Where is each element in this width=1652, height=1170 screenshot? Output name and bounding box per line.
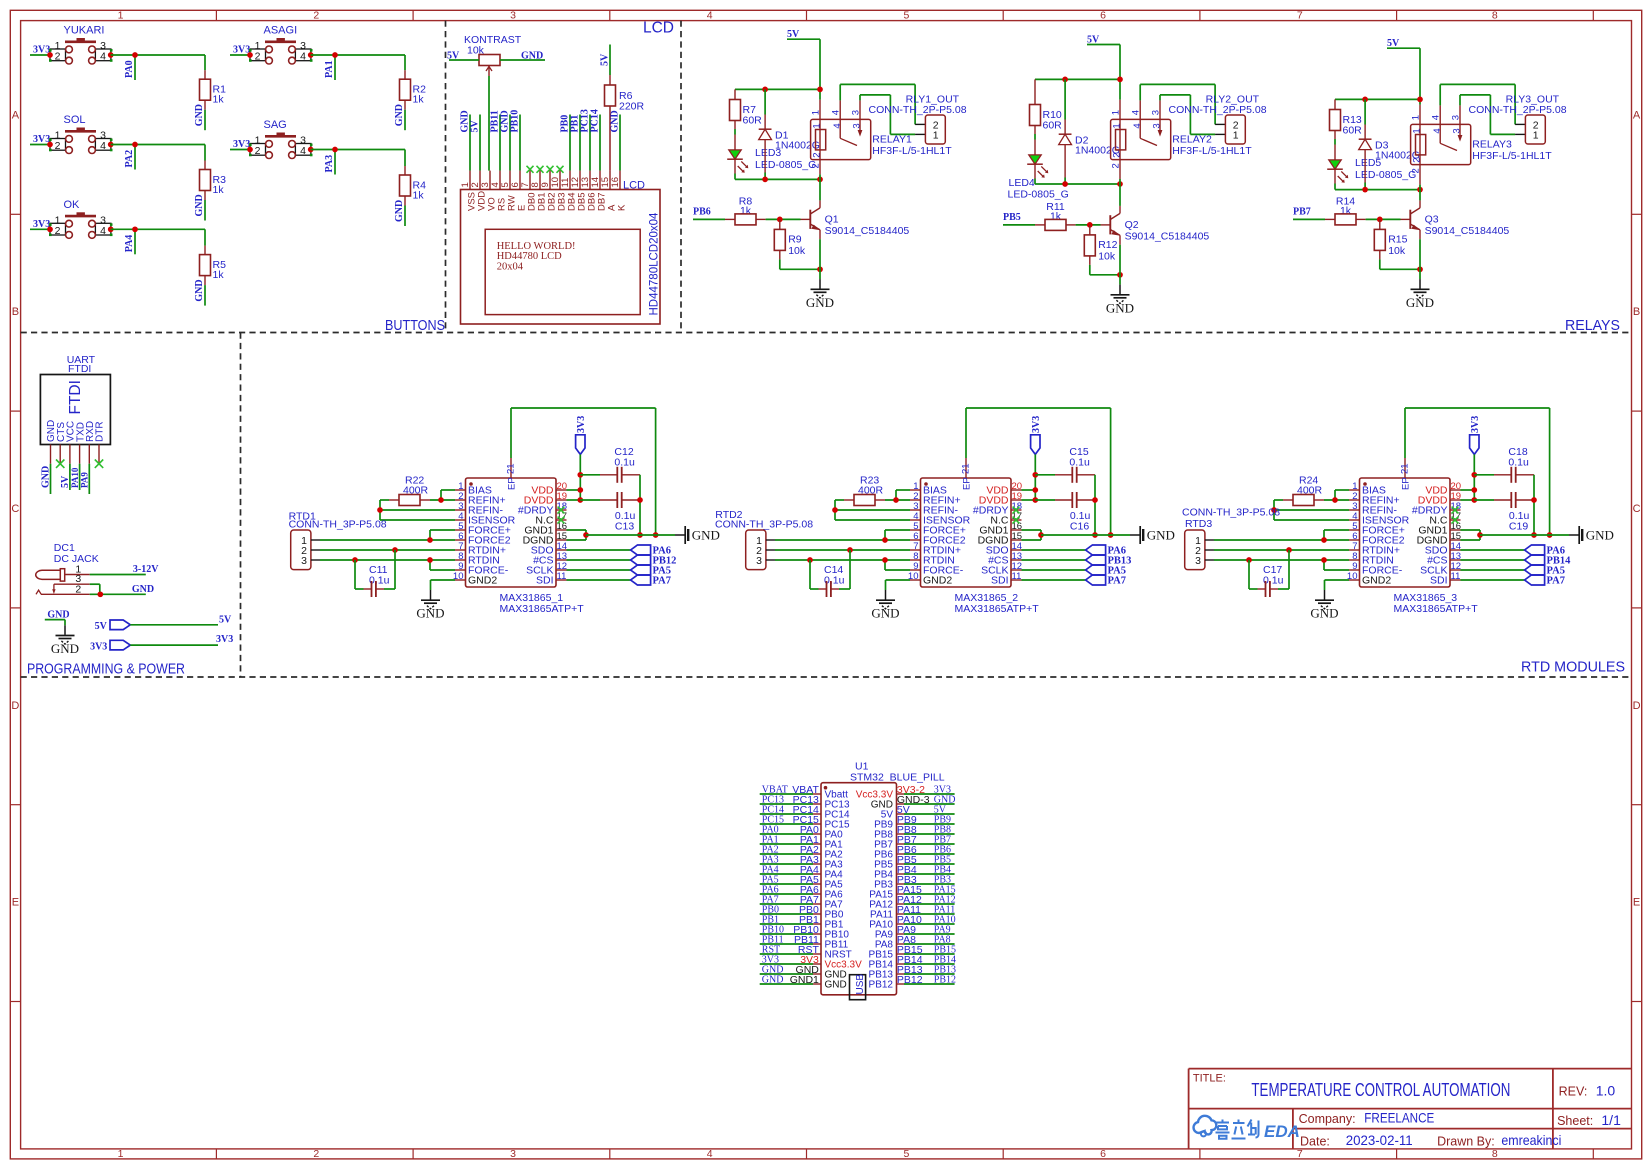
svg-text:0.1u: 0.1u	[614, 457, 635, 469]
svg-text:RELAY1: RELAY1	[872, 134, 912, 146]
transistor Q3 S9014	[1401, 200, 1510, 239]
title text	[1193, 1072, 1511, 1100]
wire GND1/DGND to ground (module 3)	[1461, 530, 1570, 540]
resistor R24 400R	[1283, 475, 1324, 506]
svg-text:GND2: GND2	[468, 575, 497, 587]
LED LED5 LED-0805_G	[1327, 145, 1416, 190]
svg-text:4: 4	[1432, 128, 1443, 133]
svg-text:4: 4	[100, 225, 106, 237]
svg-text:3V3: 3V3	[216, 634, 233, 645]
svg-text:GND1: GND1	[790, 974, 819, 986]
capacitor C11 0.1u	[355, 550, 395, 597]
wire FTDI RXD PA9	[88, 464, 90, 494]
svg-text:GND: GND	[132, 584, 154, 595]
ground (MAX31865_3 GND1)	[1569, 534, 1579, 536]
svg-text:FREELANCE: FREELANCE	[1364, 1109, 1434, 1125]
svg-text:HF3F-L/5-1HL1T: HF3F-L/5-1HL1T	[872, 145, 952, 157]
wire emitter (relay 1)	[819, 239, 821, 279]
wire LCD pin 1	[469, 115, 471, 171]
svg-text:RELAYS: RELAYS	[1565, 318, 1620, 334]
wire PA0 net	[111, 52, 205, 80]
wire/net RST (U1 left row 17)	[760, 944, 820, 956]
wire LCD pin 2	[479, 115, 481, 171]
LCD module HD44780LCD20x04	[460, 171, 660, 324]
JLCEDA logo	[1194, 1116, 1300, 1141]
wire FTDI TXD PA10	[79, 464, 81, 490]
svg-text:3V3: 3V3	[576, 416, 587, 433]
wire/net GND (U1 right row 2)	[897, 794, 956, 806]
svg-text:STM32_BLUE_PILL: STM32_BLUE_PILL	[850, 771, 945, 783]
wire PA3 net	[311, 147, 405, 175]
wire 3V3 to VDD/DVDD (module 1)	[567, 454, 584, 502]
wire GND2 (module 3)	[1325, 580, 1350, 590]
rev cell	[1559, 1083, 1616, 1099]
svg-text:0.1u: 0.1u	[1069, 457, 1090, 469]
wire PB5 to R11	[1003, 224, 1035, 226]
resistor R7 60R	[730, 89, 763, 134]
svg-text:R9: R9	[788, 233, 802, 245]
svg-text:E: E	[12, 897, 19, 909]
wire/net PC13 (U1 left row 2)	[760, 794, 819, 806]
wire RTD3 pin1 to FORCE+/FORCE2	[1214, 530, 1349, 543]
svg-text:GND2: GND2	[1362, 575, 1391, 587]
wire/net PB11 (U1 left row 16)	[760, 934, 819, 946]
wire relay pin4 to RLY2_OUT pin2	[1140, 84, 1215, 124]
MCU U1 STM32_BLUE_PILL	[813, 761, 945, 995]
svg-text:5V: 5V	[1087, 34, 1100, 45]
wire RTD1 pin1 to FORCE+/FORCE2	[320, 530, 455, 543]
svg-text:4: 4	[300, 51, 306, 63]
resistor R23 400R	[844, 475, 885, 506]
wire 5V trunk (relay 3)	[1335, 48, 1423, 104]
svg-text:MAX31865ATP+T: MAX31865ATP+T	[500, 603, 585, 615]
wire relay pin3 to RLY3_OUT pin1	[1460, 95, 1515, 134]
net flag PB13 (module 2)	[1022, 555, 1132, 567]
wire/net PB5 (U1 right row 8)	[897, 854, 955, 866]
svg-text:SOL: SOL	[64, 114, 86, 126]
svg-text:EDA: EDA	[1264, 1122, 1300, 1141]
svg-text:R15: R15	[1388, 233, 1407, 245]
wire/net 3V3 (U1 left row 18)	[760, 954, 819, 966]
svg-text:EP: EP	[1401, 477, 1412, 490]
power flag 3V3 (module 2)	[1031, 416, 1042, 455]
wire 5V trunk (relay 1)	[735, 39, 823, 99]
connector RTD2 CONN-TH_3P-P5.08	[715, 509, 813, 570]
wire relay pin3 to RLY1_OUT pin1	[860, 95, 915, 134]
svg-text:10k: 10k	[788, 245, 806, 257]
capacitor C18 0.1u	[1474, 446, 1534, 483]
svg-text:RTD3: RTD3	[1185, 518, 1212, 530]
svg-text:1k: 1k	[213, 184, 225, 196]
resistor R22 400R	[389, 475, 430, 506]
connector RLY3_OUT CONN-TH_2P-P5.08	[1469, 94, 1567, 145]
wire/net PB13 (U1 right row 19)	[897, 964, 956, 976]
svg-text:USB: USB	[855, 974, 866, 995]
svg-text:PB6: PB6	[693, 207, 711, 218]
ground (relay 2)	[1119, 285, 1121, 295]
wire GND2 (module 1)	[431, 580, 456, 590]
wire/net PB1 (U1 left row 14)	[760, 914, 819, 926]
transistor Q1 S9014	[801, 200, 910, 239]
svg-text:1: 1	[1411, 128, 1422, 133]
ground (MAX31865_1 GND2)	[430, 590, 432, 600]
wire/net PB15 (U1 right row 17)	[897, 944, 956, 956]
svg-text:2: 2	[1110, 163, 1121, 168]
capacitor C19 0.1u	[1474, 492, 1534, 533]
svg-text:4: 4	[707, 1148, 713, 1160]
wire KONTRAST to GND	[500, 59, 545, 61]
pushbutton SAG	[247, 119, 313, 159]
svg-text:S9014_C5184405: S9014_C5184405	[1425, 225, 1510, 237]
resistor R5 1k	[200, 246, 227, 286]
svg-text:A: A	[12, 109, 20, 121]
svg-text:2: 2	[810, 163, 821, 168]
LED LED4 LED-0805_G	[1008, 140, 1069, 201]
wire/net PA7 (U1 left row 12)	[760, 894, 819, 906]
capacitor C16 0.1u	[1035, 492, 1095, 533]
svg-text:EP: EP	[962, 477, 973, 490]
svg-text:3: 3	[756, 555, 762, 567]
wire LCD pin 12	[579, 115, 581, 171]
wire R15 to emitter	[1380, 259, 1423, 272]
wire PA1 net	[311, 52, 405, 80]
svg-text:4: 4	[1132, 123, 1143, 128]
wire REFIN-/ISENSOR to R22	[377, 500, 455, 520]
LED LED3 LED-0805_G	[727, 135, 816, 180]
svg-text:1: 1	[810, 110, 821, 115]
wire DC1 pin1 to 3-12V	[90, 574, 146, 576]
wire LCD pin 16 to GND	[619, 115, 621, 171]
svg-text:K: K	[616, 204, 627, 211]
resistor R1 1k	[200, 70, 227, 110]
relay RELAY1 HF3F-L/5-1HL1T	[810, 100, 952, 180]
diode D2 1N4002G	[1059, 79, 1120, 184]
wire/net PB0 (U1 left row 13)	[760, 904, 819, 916]
svg-text:PROGRAMMING & POWER: PROGRAMMING & POWER	[27, 662, 185, 678]
svg-text:CONN-TH_2P-P5.08: CONN-TH_2P-P5.08	[1469, 104, 1567, 116]
no-connect X (MAX31865_1 pin 17)	[558, 517, 565, 524]
svg-text:Drawn By:: Drawn By:	[1437, 1135, 1495, 1149]
wire EP to GND rail (module 3)	[1405, 408, 1552, 538]
power flag 3V3 (module 1)	[576, 416, 587, 455]
ground (relay 1)	[819, 279, 821, 289]
svg-text:PA9: PA9	[80, 472, 90, 488]
svg-text:GND: GND	[762, 974, 784, 985]
svg-text:21: 21	[961, 463, 972, 474]
net flag PB12 (module 1)	[567, 555, 677, 567]
svg-text:20x04: 20x04	[497, 261, 524, 272]
svg-text:PB5: PB5	[1003, 212, 1021, 223]
svg-text:PA0: PA0	[124, 60, 135, 78]
svg-text:RELAY3: RELAY3	[1472, 139, 1512, 151]
svg-text:0.1u: 0.1u	[1508, 457, 1529, 469]
ground (MAX31865_3 GND2)	[1324, 590, 1326, 600]
svg-text:LCD: LCD	[643, 20, 674, 37]
wire PB7 to R14	[1293, 218, 1325, 220]
wire EP to GND rail (module 1)	[511, 408, 658, 538]
svg-text:5V: 5V	[95, 621, 108, 632]
wire KONTRAST wiper to LCD VO	[488, 76, 490, 171]
wire/net PB14 (U1 right row 18)	[897, 954, 956, 966]
wire/net PA9 (U1 right row 15)	[897, 924, 955, 936]
IC MAX31865_3 MAX31865ATP+T	[1347, 458, 1478, 615]
wire/net PA15 (U1 right row 11)	[897, 884, 956, 896]
pushbutton OK	[47, 199, 113, 239]
svg-text:GND: GND	[1147, 528, 1175, 543]
wire/net PA11 (U1 right row 13)	[897, 904, 955, 916]
wire BIAS/REFIN+ to R23	[885, 490, 910, 503]
svg-text:PB7: PB7	[1293, 207, 1311, 218]
connector RTD3 CONN-TH_3P-P5.08	[1182, 507, 1280, 570]
wire FTDI VCC 5V	[69, 464, 71, 490]
date cell	[1300, 1132, 1561, 1149]
resistor R13 60R	[1330, 99, 1363, 144]
wire/net 5V (U1 right row 3)	[897, 804, 955, 816]
svg-text:GND: GND	[394, 104, 405, 126]
svg-text:MAX31865ATP+T: MAX31865ATP+T	[955, 603, 1040, 615]
ground (power section)	[64, 625, 66, 635]
wire/net GND (U1 left row 20)	[760, 974, 819, 986]
wire R11 to Q2 base	[1076, 222, 1101, 228]
wire LCD pin 6	[519, 115, 521, 171]
sheet cell	[1557, 1112, 1621, 1128]
no-connect X (MAX31865_2 pin 17)	[1013, 517, 1020, 524]
wire RTD2 pin2 to RTDIN+	[775, 547, 910, 553]
svg-text:CONN-TH_2P-P5.08: CONN-TH_2P-P5.08	[1169, 104, 1267, 116]
svg-text:BUTTONS: BUTTONS	[385, 318, 445, 334]
wire LCD pin 14	[599, 115, 601, 171]
svg-text:C: C	[1633, 503, 1641, 515]
svg-text:60R: 60R	[743, 115, 763, 127]
svg-text:3: 3	[301, 555, 307, 567]
wire R4 to GND	[404, 206, 406, 227]
svg-text:4: 4	[1431, 115, 1442, 120]
wire REFIN-/ISENSOR to R23	[832, 500, 910, 520]
net flag PA7 (module 1)	[567, 575, 671, 587]
wire/net PA12 (U1 right row 12)	[897, 894, 956, 906]
wire R5 to GND	[204, 285, 206, 306]
svg-text:GND: GND	[1106, 300, 1134, 315]
wire BIAS/REFIN+ to R22	[430, 490, 455, 503]
svg-text:6: 6	[1100, 1148, 1106, 1160]
wire/net PC15 (U1 left row 4)	[760, 814, 819, 826]
svg-text:4: 4	[707, 9, 713, 21]
svg-text:10k: 10k	[1098, 250, 1116, 262]
connector RTD1 CONN-TH_3P-P5.08	[289, 511, 387, 570]
svg-text:2: 2	[1411, 158, 1422, 163]
pushbutton ASAGI	[247, 25, 313, 64]
resistor R11 1k	[1035, 201, 1076, 231]
wire LCD pin 11	[569, 115, 571, 171]
wire FTDI GND	[50, 464, 52, 494]
svg-text:HF3F-L/5-1HL1T: HF3F-L/5-1HL1T	[1472, 150, 1552, 162]
no-connect X (MAX31865_2 pin 18)	[1013, 507, 1020, 514]
svg-text:10k: 10k	[1388, 245, 1406, 257]
svg-text:60R: 60R	[1043, 120, 1063, 132]
capacitor C12 0.1u	[580, 446, 640, 483]
net flag PA6 (module 2)	[1022, 545, 1126, 557]
wire emitter (relay 3)	[1419, 239, 1421, 279]
wire/net PB4 (U1 right row 9)	[897, 864, 955, 876]
svg-text:Date:: Date:	[1300, 1135, 1330, 1149]
wire R6 to LCD A	[609, 106, 611, 171]
no-connect X (LCD pin 7)	[527, 166, 534, 173]
svg-text:4: 4	[1131, 110, 1142, 115]
capacitor C14 0.1u	[810, 550, 850, 597]
wire emitter (relay 2)	[1119, 245, 1121, 285]
svg-text:GND: GND	[1310, 606, 1338, 621]
svg-text:1N4002G: 1N4002G	[775, 140, 820, 152]
svg-text:3: 3	[1152, 123, 1163, 128]
diode D3 1N4002G	[1359, 99, 1420, 189]
svg-text:HF3F-L/5-1HL1T: HF3F-L/5-1HL1T	[1172, 145, 1252, 157]
wire 5V to R6	[609, 45, 611, 76]
wire RTD3 pin3 to RTDIN/FORCE-	[1214, 557, 1349, 570]
svg-text:21: 21	[506, 463, 517, 474]
wire 3V3 to VDD/DVDD (module 3)	[1461, 454, 1478, 502]
wire R12 to emitter	[1090, 265, 1123, 278]
svg-text:Company:: Company:	[1299, 1112, 1356, 1126]
wire/net PA4 (U1 left row 9)	[760, 864, 819, 876]
wire/net 3V3 (U1 right row 1)	[897, 784, 955, 796]
svg-text:5V: 5V	[470, 120, 481, 133]
svg-text:OK: OK	[64, 199, 81, 211]
svg-text:DTR: DTR	[95, 421, 106, 442]
wire R8 to Q1 base	[766, 217, 801, 223]
svg-text:3-12V: 3-12V	[133, 564, 159, 575]
svg-text:GND: GND	[394, 200, 405, 222]
wire/net VBAT (U1 left row 1)	[760, 784, 820, 796]
diode D1 1N4002G	[759, 89, 820, 179]
wire/net PB10 (U1 left row 15)	[760, 924, 819, 936]
svg-text:1: 1	[1111, 123, 1122, 128]
svg-text:GND: GND	[194, 194, 205, 216]
no-connect X (LCD pin 9)	[547, 166, 554, 173]
connector DC1 DC JACK	[36, 542, 99, 596]
svg-text:8: 8	[1492, 9, 1498, 21]
svg-text:S9014_C5184405: S9014_C5184405	[825, 225, 910, 237]
wire caps to GND rail (module 3)	[1531, 475, 1537, 538]
svg-text:2: 2	[55, 225, 61, 237]
resistor R4 1k	[400, 166, 427, 206]
transistor Q2 S9014	[1101, 206, 1210, 245]
svg-text:CONN-TH_3P-P5.08: CONN-TH_3P-P5.08	[715, 519, 813, 531]
svg-text:1k: 1k	[213, 269, 225, 281]
wire 3V3 to SAG	[230, 149, 250, 151]
wire caps to GND rail (module 1)	[637, 475, 643, 538]
svg-text:LED4: LED4	[1009, 177, 1035, 189]
svg-text:11: 11	[1451, 571, 1461, 582]
svg-text:7: 7	[1297, 9, 1303, 21]
svg-text:B: B	[12, 306, 19, 318]
svg-text:ASAGI: ASAGI	[264, 25, 298, 37]
wire collector (relay 2)	[1119, 184, 1121, 206]
net flag PA5 (module 3)	[1461, 565, 1565, 577]
wire BIAS/REFIN+ to R24	[1324, 490, 1349, 503]
svg-text:3: 3	[1195, 555, 1201, 567]
wire DC1 pin3	[90, 584, 100, 594]
ground (MAX31865_1 GND1)	[675, 534, 685, 536]
svg-text:1: 1	[118, 9, 124, 21]
wire RTD1 pin2 to RTDIN+	[320, 547, 455, 553]
svg-text:PB12: PB12	[869, 979, 894, 990]
svg-text:Q3: Q3	[1425, 214, 1439, 226]
wire/net GND (U1 left row 19)	[760, 964, 820, 976]
svg-text:MAX31865ATP+T: MAX31865ATP+T	[1394, 603, 1479, 615]
capacitor C17 0.1u	[1249, 550, 1289, 597]
svg-text:LED-0805_G: LED-0805_G	[755, 159, 816, 171]
title block	[1189, 1069, 1632, 1149]
svg-text:PB12: PB12	[897, 974, 923, 986]
wire/net PB3 (U1 right row 10)	[897, 874, 955, 886]
svg-text:SDI: SDI	[1430, 575, 1448, 587]
wire/net PB12 (U1 right row 20)	[897, 974, 956, 986]
svg-text:2: 2	[255, 51, 261, 63]
wire LCD pin 4	[499, 115, 501, 171]
svg-text:emreakinci: emreakinci	[1501, 1132, 1561, 1148]
wire EP to GND rail (module 2)	[966, 408, 1113, 538]
wire 5V trunk (relay 2)	[1035, 45, 1123, 100]
wire/net PB9 (U1 right row 4)	[897, 814, 955, 826]
wire collector (relay 3)	[1419, 190, 1421, 201]
svg-text:3: 3	[1452, 128, 1463, 133]
svg-text:2: 2	[55, 140, 61, 152]
svg-text:2: 2	[75, 584, 81, 596]
svg-text:60R: 60R	[1343, 125, 1363, 137]
net flag PA6 (module 1)	[567, 545, 671, 557]
wire LED/diode bottom rail (relay 1)	[735, 177, 823, 183]
wire/net PB8 (U1 right row 5)	[897, 824, 955, 836]
svg-text:Q1: Q1	[825, 214, 839, 226]
wire relay pin4 to RLY1_OUT pin2	[840, 84, 915, 124]
resistor R3 1k	[200, 161, 227, 201]
svg-text:LED-0805_G: LED-0805_G	[1355, 169, 1416, 181]
resistor R15 10k	[1374, 219, 1407, 259]
module UART FTDI	[40, 354, 110, 464]
section BUTTONS boundary	[21, 21, 1632, 677]
wire 3V3 to VDD/DVDD (module 2)	[1022, 454, 1039, 502]
svg-text:GND: GND	[194, 279, 205, 301]
net flag PA5 (module 1)	[567, 565, 671, 577]
svg-text:C16: C16	[1070, 521, 1089, 533]
svg-text:FTDI: FTDI	[68, 363, 91, 375]
svg-text:PA7: PA7	[1108, 576, 1126, 587]
ground (MAX31865_2 GND2)	[885, 590, 887, 600]
wire RTD1 pin3 to RTDIN/FORCE-	[320, 557, 455, 570]
svg-text:5V: 5V	[219, 615, 232, 626]
svg-text:1: 1	[1233, 130, 1239, 142]
svg-text:3V3: 3V3	[90, 641, 107, 652]
svg-text:CONN-TH_3P-P5.08: CONN-TH_3P-P5.08	[1182, 507, 1280, 519]
svg-text:PC14: PC14	[590, 109, 601, 132]
svg-text:4: 4	[300, 145, 306, 157]
svg-text:3: 3	[1150, 110, 1161, 115]
svg-text:REV:: REV:	[1559, 1085, 1588, 1099]
svg-text:1k: 1k	[413, 190, 425, 202]
net flag PA6 (module 3)	[1461, 545, 1565, 557]
svg-text:1: 1	[811, 123, 822, 128]
ground (MAX31865_2 GND1)	[1130, 534, 1140, 536]
no-connect X (MAX31865_3 pin 17)	[1452, 517, 1459, 524]
wire 3V3 to ASAGI	[230, 54, 250, 56]
svg-text:2: 2	[1410, 168, 1421, 173]
resistor R9 10k	[774, 219, 806, 259]
svg-text:R12: R12	[1098, 239, 1117, 251]
svg-text:CONN-TH_3P-P5.08: CONN-TH_3P-P5.08	[289, 519, 387, 531]
wire RTD2 pin1 to FORCE+/FORCE2	[775, 530, 910, 543]
svg-text:3V3: 3V3	[1470, 416, 1481, 433]
wire REFIN-/ISENSOR to R24	[1271, 500, 1349, 520]
